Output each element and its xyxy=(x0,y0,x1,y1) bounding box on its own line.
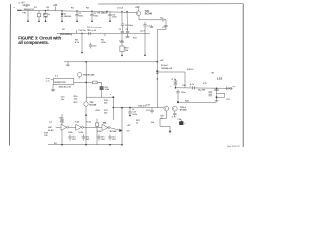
capacitor C21 xyxy=(215,100,219,102)
transistor TR1 xyxy=(136,11,141,16)
wire y107 xyxy=(113,107,164,109)
wire to arrow xyxy=(110,128,120,131)
svg-text:D3 4m7: D3 4m7 xyxy=(161,64,169,67)
capacitor TR4 emitter xyxy=(173,112,176,114)
diode D1 xyxy=(61,11,63,14)
capacitor C22 xyxy=(151,108,153,111)
wire drop x105 xyxy=(104,34,106,37)
capacitor C19 xyxy=(175,79,177,81)
wire column x122 lower xyxy=(122,27,124,31)
svg-text:1N4148: 1N4148 xyxy=(64,15,72,18)
arrow ground xyxy=(169,131,172,133)
wire column x127 xyxy=(126,12,129,32)
wire output y88 xyxy=(176,87,233,90)
node R1 gnd xyxy=(38,21,40,23)
capacitor C11 xyxy=(121,34,123,42)
node box output xyxy=(85,82,87,84)
wire x97 drop xyxy=(96,119,98,145)
wire box output xyxy=(74,81,93,83)
node x122 xyxy=(121,107,123,109)
svg-text:BC548: BC548 xyxy=(89,104,97,107)
wire right bus xyxy=(164,20,166,26)
wire bus x62 xyxy=(61,114,63,119)
capacitor C3 xyxy=(121,31,124,33)
wire bus jog xyxy=(157,27,166,62)
svg-text:a +9V: a +9V xyxy=(19,2,26,5)
svg-text:C3 C4: C3 C4 xyxy=(117,7,124,10)
node bottom c xyxy=(109,144,111,146)
IC1 box xyxy=(53,78,74,84)
node bottom b xyxy=(85,144,87,146)
svg-text:R24 4.7k: R24 4.7k xyxy=(139,104,148,107)
svg-text:+9V: +9V xyxy=(127,125,131,127)
capacitor C36 xyxy=(209,91,213,93)
wire bus x86 upper xyxy=(85,62,87,102)
wire column x122 xyxy=(121,12,123,23)
svg-text:ELEC: ELEC xyxy=(48,130,54,132)
svg-text:C14 10u: C14 10u xyxy=(78,29,86,32)
svg-text:1N4148+C16: 1N4148+C16 xyxy=(59,86,72,89)
capacitor C35 xyxy=(214,88,219,90)
transistor TR3 xyxy=(164,106,169,111)
wire x185 drop xyxy=(184,72,186,88)
arrow junction xyxy=(119,129,122,132)
wire R2 tick xyxy=(47,9,49,11)
svg-text:all components.: all components. xyxy=(18,40,49,45)
op-amp IC2c xyxy=(102,124,108,130)
capacitor C29 on wire xyxy=(225,87,227,91)
wire bottom rail xyxy=(48,144,123,146)
figure left border xyxy=(9,4,10,146)
wire top rail xyxy=(17,10,136,12)
wire x122 drop xyxy=(121,108,123,145)
wire TR1 top xyxy=(138,8,140,11)
svg-text:May 2003 47: May 2003 47 xyxy=(227,145,241,148)
wire bus x62 lower xyxy=(61,121,63,145)
wire input drop xyxy=(52,85,54,89)
resistor R10 xyxy=(120,46,124,52)
capacitor C10 xyxy=(90,43,92,45)
wire TR1 emitter xyxy=(138,16,140,20)
wire TR2 emitter xyxy=(85,106,87,145)
connector OUT xyxy=(230,87,232,89)
node y107 xyxy=(113,107,115,109)
svg-text:+9V: +9V xyxy=(135,7,140,9)
capacitor C27 xyxy=(98,135,100,137)
op-amp IC2a xyxy=(61,124,67,130)
svg-text:+9V: +9V xyxy=(160,60,164,62)
diode D3 xyxy=(156,71,159,74)
wire x214 drop xyxy=(216,88,218,100)
svg-text:TR5 BC558: TR5 BC558 xyxy=(83,75,95,77)
resistor R23 xyxy=(95,123,98,126)
capacitor C15 xyxy=(51,88,54,90)
node C17 xyxy=(129,115,131,117)
capacitor C17 xyxy=(129,108,131,112)
capacitor C24 electrolytic xyxy=(180,120,182,122)
resistor R1 xyxy=(38,10,40,13)
node C2 gnd xyxy=(91,21,93,23)
page top edge xyxy=(98,3,243,5)
wire drop x145 xyxy=(144,26,146,55)
svg-text:100n: 100n xyxy=(79,16,84,18)
svg-text:100u: 100u xyxy=(181,92,186,94)
wire stage link xyxy=(69,126,76,128)
capacitor C9 series xyxy=(88,32,90,35)
wire stage link 2 xyxy=(84,126,103,128)
wire tick x77 xyxy=(76,30,78,33)
transistor TR5 xyxy=(77,73,81,77)
switch S1 xyxy=(17,9,22,11)
node bottom a xyxy=(61,144,63,146)
wire TR3 emitter path xyxy=(160,111,170,131)
node C32 gnd xyxy=(109,20,111,22)
node x145 xyxy=(144,55,146,57)
wire mid rail xyxy=(64,61,157,63)
resistor R7 xyxy=(45,11,47,14)
capacitor C1 xyxy=(76,11,78,15)
svg-text:S1 PP3: S1 PP3 xyxy=(23,5,31,7)
node rail x127 xyxy=(126,11,127,12)
svg-text:BC548: BC548 xyxy=(180,108,188,111)
wire mic xyxy=(56,126,61,128)
capacitor C31 xyxy=(164,25,167,27)
svg-text:(+): (+) xyxy=(49,122,52,124)
op-amp IC2b xyxy=(76,124,82,130)
svg-text:+9V: +9V xyxy=(53,5,58,7)
svg-text:1N4148+D4: 1N4148+D4 xyxy=(161,67,173,70)
node bottom d xyxy=(121,144,123,146)
node TR2 emitter xyxy=(85,114,87,116)
node R10 gnd xyxy=(121,55,123,57)
node R7 gnd xyxy=(45,20,47,22)
node rail b xyxy=(76,10,77,11)
wire y102 xyxy=(178,101,217,103)
svg-text:100n: 100n xyxy=(132,114,137,116)
wire TR4 emitter xyxy=(174,111,176,113)
svg-text:C5 100u: C5 100u xyxy=(125,25,134,27)
capacitor C23 top xyxy=(177,89,179,91)
node rail2 x82 xyxy=(81,33,82,34)
node C1 gnd xyxy=(76,21,78,23)
node bus y79 xyxy=(157,78,158,79)
wire input xyxy=(51,79,54,81)
transistor TR4 xyxy=(172,106,177,111)
node C17 top xyxy=(129,107,131,109)
wire x113 drop xyxy=(112,97,114,120)
capacitor C26 xyxy=(83,134,85,136)
svg-text:IC2b: IC2b xyxy=(75,121,80,123)
node rail c xyxy=(91,10,92,11)
svg-text:+C13: +C13 xyxy=(140,30,146,32)
wire drop A xyxy=(27,10,29,21)
node D1 gnd xyxy=(61,21,63,23)
capacitor C25 xyxy=(69,134,71,136)
svg-text:MIC: MIC xyxy=(48,127,52,129)
node rail x45 xyxy=(45,10,46,11)
capacitor C8 electrolytic xyxy=(151,25,153,26)
capacitor C32 xyxy=(109,11,111,14)
svg-text:BC548: BC548 xyxy=(145,13,153,16)
capacitor C33 series xyxy=(192,86,194,90)
resistor R12 xyxy=(93,81,98,84)
capacitor C12 xyxy=(127,34,129,37)
page right edge xyxy=(242,4,244,147)
wire second rail xyxy=(57,33,150,35)
node x86 top xyxy=(85,61,87,63)
capacitor C28 xyxy=(109,135,111,137)
svg-text:NJM2073D: NJM2073D xyxy=(54,82,65,84)
capacitor C4 xyxy=(126,31,129,33)
node x82 xyxy=(81,52,83,54)
svg-text:IC2d: IC2d xyxy=(87,121,92,123)
svg-text:R5 1N4148: R5 1N4148 xyxy=(98,12,109,15)
wire right bus lower xyxy=(156,62,158,108)
node output mid xyxy=(216,88,218,90)
node output left xyxy=(175,87,177,89)
jack J1 loop xyxy=(217,93,225,97)
wire stub xyxy=(67,62,69,67)
wire +9V tick xyxy=(55,6,57,10)
svg-text:100n: 100n xyxy=(94,16,99,18)
wire corner to x101 xyxy=(97,82,101,97)
node rail e xyxy=(121,11,122,12)
svg-text:[1N4148+]: [1N4148+] xyxy=(60,32,72,36)
wire to coupling cap xyxy=(139,19,162,21)
capacitor C2 xyxy=(91,11,93,15)
node x214 bottom xyxy=(216,96,218,98)
capacitor C5 electrolytic xyxy=(122,23,124,24)
node y97 xyxy=(112,96,114,98)
node C23 xyxy=(177,101,179,103)
capacitor C20 xyxy=(175,82,177,83)
svg-text:100n: 100n xyxy=(112,17,117,19)
node A xyxy=(27,20,29,22)
node rail d xyxy=(106,11,107,12)
node rail a xyxy=(61,10,62,11)
resistor R13 on drop xyxy=(100,87,103,90)
svg-text:BL+RN: BL+RN xyxy=(198,90,205,92)
svg-text:R18 1k: R18 1k xyxy=(187,69,194,71)
svg-text:LS1: LS1 xyxy=(217,76,223,80)
capacitor C30 xyxy=(60,119,63,121)
svg-text:100n: 100n xyxy=(59,117,64,119)
node right bus mid xyxy=(157,61,159,63)
battery B1 xyxy=(24,4,29,6)
wire y72 xyxy=(157,71,185,73)
capacitor C37 xyxy=(209,94,213,96)
capacitor C6 coupling xyxy=(161,18,163,21)
capacitor C7 electrolytic xyxy=(144,22,146,25)
wire drop x82 xyxy=(81,34,83,53)
wire y97 xyxy=(86,96,113,98)
svg-text:BC548: BC548 xyxy=(110,130,117,133)
transistor TR2 xyxy=(84,102,88,106)
